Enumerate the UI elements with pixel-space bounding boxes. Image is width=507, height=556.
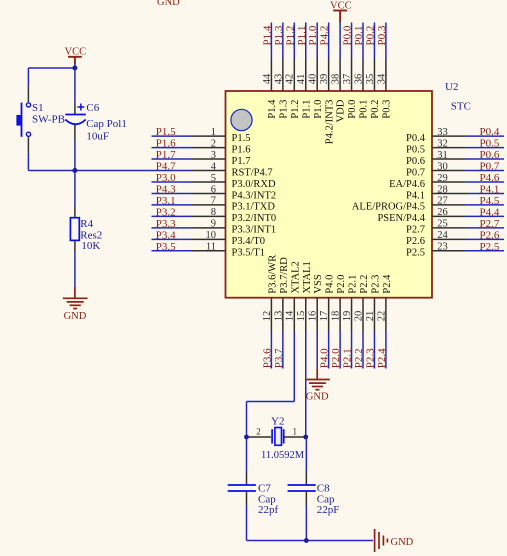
svg-text:P3.7: P3.7: [273, 348, 285, 368]
svg-text:STC: STC: [451, 101, 471, 113]
svg-text:P0.4: P0.4: [480, 126, 500, 138]
svg-text:6: 6: [211, 184, 216, 195]
svg-text:P1.4: P1.4: [261, 25, 273, 45]
svg-text:22: 22: [376, 311, 387, 322]
svg-text:41: 41: [296, 74, 307, 85]
svg-text:S1: S1: [32, 102, 44, 114]
svg-text:35: 35: [365, 74, 376, 85]
svg-text:P0.5: P0.5: [406, 144, 425, 155]
svg-text:P2.3: P2.3: [364, 348, 376, 368]
svg-text:33: 33: [437, 127, 448, 138]
svg-text:P3.6/WR: P3.6/WR: [267, 255, 278, 294]
svg-text:31: 31: [437, 150, 448, 161]
svg-text:22pF: 22pF: [317, 504, 340, 516]
svg-text:42: 42: [285, 74, 296, 85]
svg-text:P4.3/INT2: P4.3/INT2: [232, 190, 277, 201]
svg-text:P4.2: P4.2: [319, 26, 331, 46]
svg-text:P3.0: P3.0: [156, 172, 176, 184]
svg-text:P0.7: P0.7: [480, 161, 500, 173]
svg-text:P1.1: P1.1: [296, 26, 308, 46]
svg-text:GND: GND: [157, 0, 180, 8]
svg-text:17: 17: [319, 311, 330, 322]
svg-text:P2.7: P2.7: [480, 218, 500, 230]
svg-text:P4.1: P4.1: [480, 184, 500, 196]
svg-text:27: 27: [437, 196, 448, 207]
svg-text:P2.6: P2.6: [406, 236, 425, 247]
svg-text:P1.0: P1.0: [307, 25, 319, 45]
svg-text:P3.0/RXD: P3.0/RXD: [232, 179, 276, 190]
svg-text:P3.4: P3.4: [156, 229, 176, 241]
svg-text:32: 32: [437, 138, 448, 149]
svg-text:38: 38: [331, 74, 342, 85]
svg-text:39: 39: [319, 74, 330, 85]
svg-text:P4.7: P4.7: [156, 161, 176, 173]
svg-text:U2: U2: [445, 81, 458, 93]
svg-text:ALE/PROG/P4.5: ALE/PROG/P4.5: [352, 202, 425, 213]
svg-text:PSEN/P4.4: PSEN/P4.4: [377, 213, 425, 224]
svg-text:P2.2: P2.2: [359, 275, 370, 294]
svg-text:10: 10: [206, 230, 217, 241]
svg-text:4: 4: [211, 161, 217, 172]
svg-text:P0.1: P0.1: [359, 100, 370, 119]
svg-text:P1.2: P1.2: [290, 100, 301, 119]
svg-text:XTAL2: XTAL2: [290, 261, 301, 293]
svg-text:XTAL1: XTAL1: [302, 261, 313, 293]
svg-text:P1.7: P1.7: [156, 149, 176, 161]
svg-text:8: 8: [211, 207, 216, 218]
svg-text:28: 28: [437, 184, 448, 195]
svg-text:P4.3: P4.3: [156, 184, 176, 196]
svg-text:9: 9: [211, 219, 216, 230]
svg-text:P3.4/T0: P3.4/T0: [232, 236, 266, 247]
svg-text:2: 2: [211, 138, 216, 149]
svg-text:P0.3: P0.3: [376, 25, 388, 45]
svg-text:P4.5: P4.5: [480, 195, 500, 207]
svg-text:25: 25: [437, 219, 448, 230]
svg-text:P4.6: P4.6: [480, 172, 500, 184]
svg-text:P2.7: P2.7: [406, 225, 425, 236]
svg-text:P2.1: P2.1: [342, 348, 354, 368]
svg-text:P1.0: P1.0: [313, 100, 324, 119]
svg-text:P3.6: P3.6: [261, 348, 273, 368]
svg-text:P3.5: P3.5: [156, 241, 176, 253]
svg-text:C8: C8: [317, 482, 330, 494]
svg-text:P4.0: P4.0: [325, 275, 336, 294]
svg-text:P1.2: P1.2: [284, 26, 296, 46]
svg-text:18: 18: [331, 311, 342, 322]
svg-text:14: 14: [285, 310, 296, 321]
svg-text:5: 5: [211, 173, 216, 184]
svg-text:P0.0: P0.0: [347, 100, 358, 119]
svg-text:GND: GND: [391, 537, 414, 548]
svg-text:10K: 10K: [81, 240, 100, 252]
svg-text:EA/P4.6: EA/P4.6: [389, 179, 425, 190]
svg-text:VCC: VCC: [330, 0, 352, 11]
svg-text:P3.2: P3.2: [156, 206, 176, 218]
svg-text:P0.6: P0.6: [480, 149, 500, 161]
svg-text:10uF: 10uF: [86, 131, 109, 143]
svg-text:P2.3: P2.3: [370, 275, 381, 294]
svg-text:RST/P4.7: RST/P4.7: [232, 167, 273, 178]
svg-text:P2.6: P2.6: [480, 229, 500, 241]
svg-text:P2.5: P2.5: [406, 248, 425, 259]
svg-text:P1.7: P1.7: [232, 156, 251, 167]
svg-text:Cap Pol1: Cap Pol1: [86, 118, 127, 130]
svg-text:P3.2/INT0: P3.2/INT0: [232, 213, 277, 224]
svg-text:P0.2: P0.2: [370, 100, 381, 119]
svg-text:P1.4: P1.4: [267, 99, 278, 119]
svg-text:P0.3: P0.3: [382, 100, 393, 119]
svg-text:26: 26: [437, 207, 448, 218]
svg-text:P1.6: P1.6: [232, 144, 251, 155]
svg-text:1: 1: [293, 427, 298, 437]
svg-text:13: 13: [273, 311, 284, 322]
svg-text:P0.7: P0.7: [406, 167, 425, 178]
svg-text:16: 16: [308, 311, 319, 322]
svg-text:Y2: Y2: [271, 416, 284, 428]
svg-text:24: 24: [437, 230, 448, 241]
svg-text:P0.0: P0.0: [342, 25, 354, 45]
svg-text:36: 36: [353, 74, 364, 85]
svg-text:P2.0: P2.0: [336, 275, 347, 294]
svg-text:P1.3: P1.3: [278, 100, 289, 119]
svg-text:VSS: VSS: [313, 274, 324, 293]
svg-text:P2.0: P2.0: [330, 348, 342, 368]
svg-text:P1.5: P1.5: [156, 126, 176, 138]
svg-text:20: 20: [353, 311, 364, 322]
svg-text:11.0592M: 11.0592M: [261, 450, 305, 461]
svg-text:P1.5: P1.5: [232, 133, 251, 144]
svg-text:12: 12: [262, 311, 273, 322]
svg-text:GND: GND: [64, 311, 87, 322]
svg-text:23: 23: [437, 242, 448, 253]
svg-text:29: 29: [437, 173, 448, 184]
svg-text:22pf: 22pf: [258, 504, 279, 516]
svg-text:P3.5/T1: P3.5/T1: [232, 248, 266, 259]
svg-text:P4.0: P4.0: [319, 348, 331, 368]
svg-text:P3.1: P3.1: [156, 195, 176, 207]
svg-text:21: 21: [365, 311, 376, 322]
svg-text:P4.2/INT3: P4.2/INT3: [324, 100, 335, 145]
svg-text:VDD: VDD: [336, 99, 347, 122]
svg-text:P0.5: P0.5: [480, 138, 500, 150]
svg-text:P2.2: P2.2: [353, 348, 365, 368]
svg-text:11: 11: [206, 242, 216, 253]
svg-text:P2.4: P2.4: [376, 348, 388, 368]
svg-text:P0.1: P0.1: [353, 26, 365, 46]
svg-text:1: 1: [211, 127, 216, 138]
svg-text:40: 40: [308, 74, 319, 85]
svg-text:P2.4: P2.4: [382, 274, 393, 294]
svg-text:P3.3/INT1: P3.3/INT1: [232, 225, 277, 236]
svg-text:30: 30: [437, 161, 448, 172]
svg-text:P2.5: P2.5: [480, 241, 500, 253]
svg-text:GND: GND: [306, 392, 329, 403]
svg-text:2: 2: [256, 427, 261, 437]
svg-text:P2.1: P2.1: [348, 275, 359, 294]
svg-text:P1.1: P1.1: [301, 100, 312, 119]
svg-text:7: 7: [211, 196, 216, 207]
svg-text:C7: C7: [258, 482, 271, 494]
svg-text:34: 34: [376, 73, 387, 84]
svg-text:P0.2: P0.2: [364, 26, 376, 46]
svg-text:SW-PB: SW-PB: [32, 114, 65, 126]
svg-text:P0.6: P0.6: [406, 156, 425, 167]
svg-text:P4.1: P4.1: [406, 190, 425, 201]
svg-text:37: 37: [342, 74, 353, 85]
svg-text:43: 43: [273, 74, 284, 85]
svg-text:P1.3: P1.3: [273, 25, 285, 45]
svg-text:P4.4: P4.4: [480, 206, 500, 218]
svg-text:P3.1/TXD: P3.1/TXD: [232, 202, 276, 213]
svg-text:19: 19: [342, 311, 353, 322]
svg-text:P1.6: P1.6: [156, 138, 176, 150]
svg-text:P3.3: P3.3: [156, 218, 176, 230]
svg-text:44: 44: [262, 73, 273, 84]
svg-text:P0.4: P0.4: [406, 133, 426, 144]
svg-text:C6: C6: [86, 102, 99, 114]
svg-text:3: 3: [211, 150, 216, 161]
svg-text:R4: R4: [80, 218, 93, 230]
svg-text:P3.7/RD: P3.7/RD: [279, 257, 290, 294]
svg-text:15: 15: [296, 311, 307, 322]
